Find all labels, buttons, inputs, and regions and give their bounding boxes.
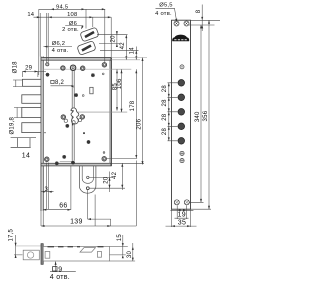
leader line from tab hole down xyxy=(88,190,111,226)
small hole mid-lower xyxy=(83,132,85,134)
bottom screw holes xyxy=(174,200,189,205)
slanted sliver xyxy=(80,248,96,253)
bolt pin 2 (Ø19.8) xyxy=(22,95,41,104)
svg-text:Ø6: Ø6 xyxy=(69,21,77,27)
svg-text:15: 15 xyxy=(117,234,123,242)
lock body bottom view xyxy=(43,247,109,262)
dark dash row on top edge xyxy=(48,246,104,248)
svg-text:8: 8 xyxy=(196,9,202,13)
hole F bottom-right Ø6.2 xyxy=(102,157,106,161)
mounting lug lower (Ø6 tab) xyxy=(77,41,96,56)
svg-text:4 отв.: 4 отв. xyxy=(52,48,69,54)
keyhole cutout xyxy=(71,108,79,124)
internal line mid xyxy=(74,111,128,113)
cover inner top line (light) xyxy=(43,68,109,70)
svg-text:20: 20 xyxy=(111,35,117,43)
top screw holes xyxy=(174,21,189,26)
latch box bottom-left xyxy=(11,138,36,148)
tiny hole lower-right xyxy=(103,152,105,154)
faceplate edge-on double line xyxy=(41,57,43,212)
internal line above bottom rail xyxy=(60,160,73,162)
svg-text:29: 29 xyxy=(25,65,33,71)
left extension light line xyxy=(16,245,43,247)
dim 356 xyxy=(191,20,212,209)
svg-text:Ø6,2: Ø6,2 xyxy=(52,41,66,47)
rivet top-left xyxy=(46,73,50,77)
small circle right of keyhole xyxy=(78,119,81,122)
hole E top-left Ø6.2 xyxy=(46,63,49,66)
svg-text:28: 28 xyxy=(162,128,168,136)
svg-text:42: 42 xyxy=(112,171,118,179)
dims 15 30 bottom view xyxy=(110,235,136,261)
svg-text:Ø19,8: Ø19,8 xyxy=(10,116,16,134)
dim 17,5 xyxy=(14,235,23,256)
label square 9, 4 отв. xyxy=(50,262,76,272)
small dot hole top-right xyxy=(102,73,104,75)
svg-text:94,5: 94,5 xyxy=(56,4,68,10)
hole bottom-left Ø6.2 xyxy=(45,157,49,161)
svg-text:4 отв.: 4 отв. xyxy=(155,11,172,17)
svg-text:14: 14 xyxy=(27,12,34,18)
rivet center xyxy=(74,93,78,97)
bolt pin 1 (Ø18) xyxy=(22,79,41,132)
dim 35 xyxy=(166,209,197,227)
hole C xyxy=(81,66,85,70)
svg-text:14: 14 xyxy=(22,153,30,160)
svg-text:19: 19 xyxy=(178,212,186,219)
bottom tab with two holes xyxy=(79,166,96,193)
square holes xyxy=(45,252,50,259)
rivet below keyhole xyxy=(65,124,69,128)
dims near lugs: 20 42 14 xyxy=(97,31,139,60)
dim 19 xyxy=(170,205,193,219)
rivet bottom-mid xyxy=(71,161,75,165)
tab dims 20 42 xyxy=(89,163,125,192)
svg-text:14: 14 xyxy=(129,47,135,55)
hole A xyxy=(61,66,65,70)
svg-text:Ø5,5: Ø5,5 xyxy=(159,3,173,9)
slot rectangle xyxy=(90,87,93,94)
svg-text:8,2: 8,2 xyxy=(55,80,65,86)
svg-text:2 отв.: 2 отв. xyxy=(62,27,79,33)
small hole with dot xyxy=(180,65,184,69)
svg-text:178: 178 xyxy=(130,100,136,111)
extension bolt face xyxy=(39,9,40,75)
bolt pin 4 (Ø19.8) xyxy=(22,123,41,133)
svg-text:108: 108 xyxy=(67,12,77,18)
svg-text:28: 28 xyxy=(162,99,168,107)
small circle left of keyhole xyxy=(64,119,67,122)
svg-text:35: 35 xyxy=(178,220,186,227)
dim 8 xyxy=(189,5,220,32)
dim 139 xyxy=(41,161,136,227)
extension pair hole E xyxy=(47,13,48,63)
dim 66 xyxy=(43,166,71,210)
keyhole left ring xyxy=(61,115,65,119)
case right edge thick xyxy=(110,58,112,166)
spindle slot double line from nut down xyxy=(72,71,74,161)
svg-text:42: 42 xyxy=(120,42,126,50)
dim 94,5 line xyxy=(39,9,105,62)
case bottom rail (gray band) xyxy=(41,163,111,166)
lock case outline xyxy=(43,58,111,164)
svg-text:206: 206 xyxy=(136,118,142,129)
svg-text:340: 340 xyxy=(195,111,201,122)
faceplate outline xyxy=(172,20,191,209)
svg-text:17,5: 17,5 xyxy=(9,228,15,241)
logo emblem xyxy=(172,35,189,42)
svg-text:66: 66 xyxy=(59,203,67,210)
rivet bottom-left xyxy=(62,155,66,159)
dim chain 28 x4 xyxy=(168,83,178,141)
case top rail (gray band) xyxy=(41,58,111,61)
svg-text:20: 20 xyxy=(104,176,110,184)
rivet on bottom rail xyxy=(55,161,59,165)
svg-text:30: 30 xyxy=(127,251,133,259)
svg-text:28: 28 xyxy=(162,85,168,93)
bolt pin 3 (Ø19.8) xyxy=(22,108,41,118)
svg-text:139: 139 xyxy=(70,218,83,225)
svg-text:106: 106 xyxy=(117,78,123,89)
dim 3 xyxy=(41,163,54,210)
two cross screws xyxy=(180,151,184,162)
svg-text:28: 28 xyxy=(162,113,168,121)
faceplate section xyxy=(41,244,43,265)
right side dims 85 106 178 206 xyxy=(111,58,147,70)
keyhole right ring xyxy=(80,115,84,119)
hole D corner Ø6.2 xyxy=(102,63,106,67)
small dot hole center xyxy=(82,95,84,97)
dim 108 / 14 line xyxy=(34,17,112,57)
svg-text:9: 9 xyxy=(58,266,62,273)
spindle nut B (square 8.2 hub) xyxy=(70,65,75,70)
rivet top-mid xyxy=(91,73,95,77)
tiny mark on plate xyxy=(44,132,45,133)
dim 340 xyxy=(190,25,204,202)
rivet lower xyxy=(87,140,91,144)
mounting lug upper (Ø6 tab) xyxy=(77,27,99,55)
svg-text:4 отв.: 4 отв. xyxy=(50,274,70,281)
svg-text:3: 3 xyxy=(45,187,49,193)
svg-text:Ø18: Ø18 xyxy=(12,61,18,74)
five lever holes xyxy=(178,80,185,145)
bolt head xyxy=(23,250,39,260)
label square 8,2 xyxy=(51,80,54,83)
svg-text:356: 356 xyxy=(203,110,209,121)
